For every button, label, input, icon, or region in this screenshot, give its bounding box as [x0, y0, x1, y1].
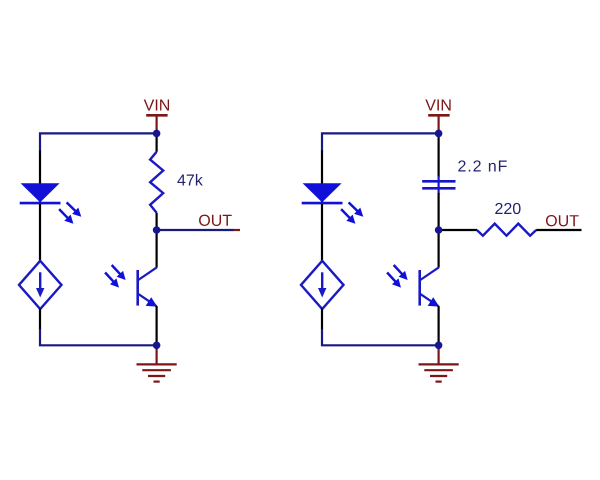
power port VIN (left) : bar symbol: [146, 114, 167, 117]
phototransistor light arrow 2 (right): [384, 270, 404, 291]
phototransistor light arrow 1 (right): [390, 262, 410, 283]
wire : bottom rail (left circuit): [40, 329, 157, 345]
resistor 47k : top pin (black): [156, 133, 158, 151]
label OUT (right) : text: [546, 215, 579, 226]
current source (left, diamond symbol): [19, 261, 62, 309]
wire : top rail (right circuit): [322, 133, 439, 151]
wire : current source bottom pin (black): [39, 309, 41, 330]
junction : VIN node (right): [435, 130, 443, 138]
phototransistor (right): [420, 267, 440, 306]
capacitor 2.2 nF (right): [422, 176, 455, 194]
resistor 220 (right, horizontal zigzag): [477, 224, 536, 236]
ground (left): [137, 345, 177, 381]
wire : current source bottom pin (black, right): [321, 309, 323, 330]
value label 47k: [177, 174, 202, 186]
wire : node to series resistor (black): [439, 229, 477, 231]
junction : ground node (left): [153, 342, 161, 350]
wire : phototransistor collector pin (black, right): [438, 230, 440, 268]
power port VIN (left) : label text: [144, 99, 169, 110]
wire : pin between LED cathode and current source (black, right): [321, 204, 323, 262]
value label 2.2 nF: [458, 160, 506, 171]
junction : OUT node (left): [153, 226, 161, 234]
LED (emitter diode, right): [302, 183, 343, 203]
power port VIN (left) : pin stub: [156, 115, 158, 133]
value label 220: [495, 203, 520, 214]
power port VIN (right) : pin stub: [438, 115, 440, 133]
wire : resistor to OUT (black): [536, 229, 581, 231]
power port VIN (right) : bar symbol: [428, 114, 449, 117]
resistor 47k (left, zigzag): [150, 152, 163, 213]
wire : LED anode pin (black, right): [321, 151, 323, 205]
label OUT (left) : port underline end: [233, 229, 240, 231]
wire : bottom rail (right circuit): [322, 329, 439, 345]
wire : phototransistor emitter pin (black, left): [156, 306, 158, 345]
capacitor 2.2 nF : top pin (black): [438, 133, 440, 177]
LED (emitter diode, left): [20, 183, 61, 203]
wire : LED anode pin (black): [39, 151, 41, 205]
phototransistor (left): [138, 267, 158, 306]
LED emission arrow 2 (left): [56, 206, 77, 227]
wire : phototransistor emitter pin (black, right): [438, 306, 440, 345]
phototransistor light arrow 2 (left): [102, 270, 122, 291]
wire : phototransistor collector pin (black, left): [156, 230, 158, 268]
wire : OUT wire (left, navy): [157, 229, 234, 231]
wire : pin between LED cathode and current source (black): [39, 204, 41, 262]
junction : VIN node (left): [153, 130, 161, 138]
resistor 47k : bottom pin (black): [156, 213, 158, 230]
LED emission arrow 2 (right): [338, 206, 359, 227]
LED emission arrow 1 (left): [64, 199, 85, 220]
capacitor 2.2 nF : bottom pin (black): [438, 193, 440, 230]
phototransistor light arrow 1 (left): [108, 262, 128, 283]
junction : capacitor / output node (right): [435, 226, 443, 234]
power port VIN (right) : label text: [425, 99, 450, 110]
ground (right): [419, 345, 459, 381]
junction : ground node (right): [435, 342, 443, 350]
current source (right, diamond symbol): [301, 261, 344, 309]
LED emission arrow 1 (right): [346, 199, 367, 220]
label OUT (left) : text: [199, 215, 232, 226]
wire : top rail (left circuit) from LED branch to VIN node: [40, 133, 157, 151]
